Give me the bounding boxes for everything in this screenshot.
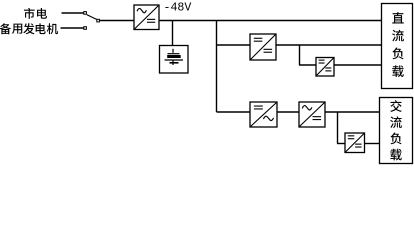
- AC/DC rectifier U5: [299, 102, 325, 127]
- DC/DC converter U2: [250, 34, 276, 60]
- battery symbol: [165, 49, 184, 65]
- svg-text:-48V: -48V: [164, 2, 192, 15]
- wire: branch to DC/DC converter U2: [217, 44, 251, 46]
- DC load box: [382, 4, 413, 89]
- wire: generator label to switch contact: [61, 27, 84, 29]
- label: 交流负载 (AC load): [390, 100, 402, 160]
- wire: U5 output to AC load: [325, 111, 380, 113]
- DC/DC converter U3: [316, 58, 334, 77]
- DC/DC converter U6: [345, 133, 365, 153]
- wire: drop to DC/DC converter U6: [337, 112, 339, 144]
- switch blade: [87, 15, 97, 20]
- label: 直流负载 (DC load): [392, 12, 404, 77]
- label: 市电 (mains): [24, 8, 47, 19]
- wire: battery drop: [172, 21, 174, 46]
- wire: -48V bus from rectifier to DC load box: [159, 20, 382, 22]
- wire: mains label to switch contact: [62, 12, 84, 14]
- switch contact: generator (open): [84, 27, 87, 30]
- switch contact: mains: [84, 12, 87, 15]
- battery box: [160, 46, 189, 74]
- switch pole: [97, 19, 100, 22]
- wire: U2 output to DC load: [276, 44, 382, 46]
- wire: drop to DC/DC converter U3: [299, 45, 301, 65]
- rectifier AC/DC U1: [134, 5, 159, 30]
- wire: switch pole to rectifier input: [100, 20, 135, 22]
- AC load box: [380, 98, 413, 164]
- wire: U4 to U5: [277, 111, 299, 113]
- wire: bottom branch to inverter U4: [217, 111, 251, 113]
- wire: U6 output to AC load: [365, 143, 380, 145]
- wire: U3 output to DC load: [334, 64, 382, 66]
- label: 备用发电机 (standby generator): [0, 23, 58, 34]
- DC/AC inverter U4: [250, 102, 277, 127]
- wire: vertical distribution bus: [216, 21, 218, 113]
